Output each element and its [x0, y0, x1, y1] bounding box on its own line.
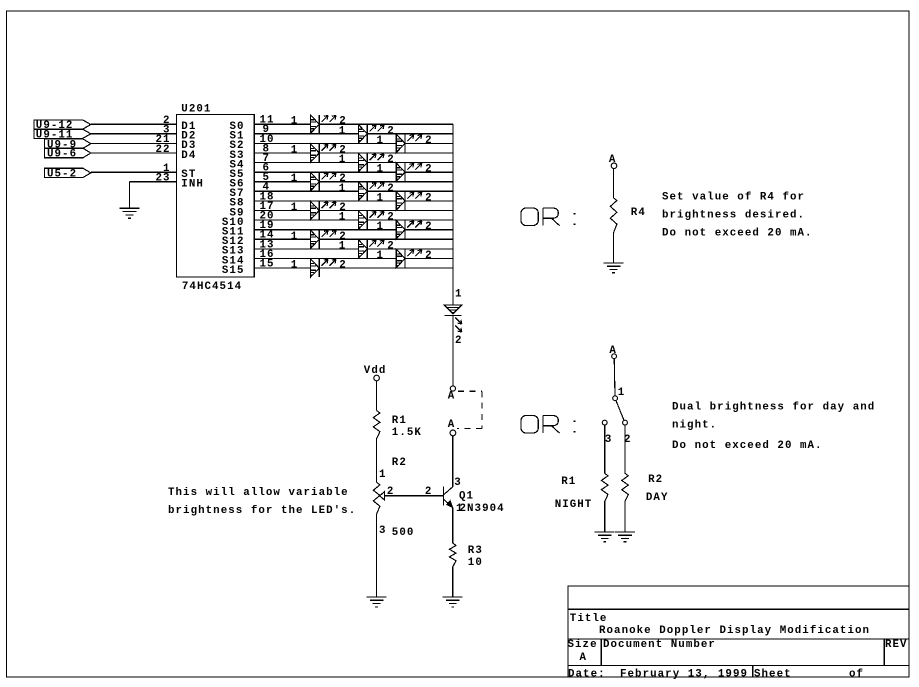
LED D17 series (pointing down): [444, 305, 462, 332]
svg-text:2: 2: [387, 240, 395, 252]
wire pin2 to R2 day: [624, 425, 626, 473]
wire S10 row: [254, 219, 453, 221]
svg-text:Q1: Q1: [459, 490, 474, 502]
wire pin3 to R1 night: [604, 425, 606, 473]
wire node A to collector: [452, 436, 454, 487]
svg-text:R4: R4: [631, 207, 646, 219]
svg-text:Sheet: Sheet: [754, 669, 792, 681]
wire S12 row: [254, 238, 453, 240]
wire wiper to Q1 base: [385, 495, 444, 497]
wire flag to pin 2: [91, 123, 177, 125]
svg-text:Dual brightness for day and: Dual brightness for day and: [672, 401, 875, 413]
LED D14 (row S13): [359, 240, 385, 258]
wire S15 row: [254, 267, 453, 269]
svg-text:74HC4514: 74HC4514: [182, 281, 242, 293]
svg-text:500: 500: [392, 527, 415, 539]
svg-text:2: 2: [425, 221, 433, 233]
svg-text:2: 2: [387, 212, 395, 224]
svg-text:1: 1: [339, 240, 347, 252]
wire S7 row: [254, 190, 453, 192]
connector flag U9-6: [44, 148, 90, 160]
svg-text:R2: R2: [392, 457, 407, 469]
svg-text:1: 1: [377, 221, 385, 233]
svg-text:1: 1: [455, 289, 463, 301]
svg-text:1: 1: [377, 164, 385, 176]
ground below R3: [443, 597, 463, 607]
wire R2 to ground: [624, 502, 626, 532]
svg-text:DAY: DAY: [646, 492, 669, 504]
IC U201 (74HC4514 4-to-16 line decoder) body: [177, 114, 255, 277]
wire S6 row: [254, 181, 453, 183]
ground at INH: [120, 208, 140, 218]
dashed connection between A nodes: [457, 391, 482, 428]
svg-text:Size: Size: [568, 639, 598, 651]
svg-text:1: 1: [339, 212, 347, 224]
ground below R2 day: [615, 532, 635, 542]
LED D6 (row S5): [396, 163, 422, 181]
wire S9 row: [254, 210, 453, 212]
svg-text:U201: U201: [181, 103, 211, 115]
svg-text:1: 1: [291, 173, 299, 185]
svg-text:1: 1: [291, 145, 299, 157]
svg-text:2: 2: [339, 260, 347, 272]
wire S8 row: [254, 200, 453, 202]
label OR 2: [521, 416, 575, 434]
LED D13 (row S12): [311, 230, 337, 248]
LED D12 (row S11): [396, 221, 422, 239]
LED D11 (row S10): [359, 211, 385, 229]
svg-text:2: 2: [425, 135, 433, 147]
svg-text:3: 3: [379, 525, 387, 537]
wire S2 row: [254, 142, 453, 144]
svg-text:3: 3: [454, 477, 462, 489]
svg-text:R1: R1: [392, 415, 407, 427]
resistor R1 NIGHT: [601, 473, 608, 501]
svg-text:D4: D4: [181, 150, 196, 162]
resistor R4: [610, 198, 617, 233]
svg-text:1: 1: [377, 135, 385, 147]
svg-text:brightness for the LED's.: brightness for the LED's.: [168, 505, 356, 517]
svg-text:Do not exceed 20 mA.: Do not exceed 20 mA.: [672, 440, 823, 452]
svg-text:2: 2: [425, 486, 433, 498]
svg-text:10: 10: [468, 557, 483, 569]
resistor R3 10: [449, 543, 456, 567]
wire S14 row: [254, 258, 453, 260]
svg-text:1: 1: [618, 387, 626, 399]
svg-text:A: A: [448, 419, 456, 431]
svg-text:Document Number: Document Number: [603, 639, 716, 651]
LED D15 (row S14): [396, 249, 422, 267]
wire LED to node A: [452, 315, 454, 386]
title block: [568, 586, 909, 677]
svg-text:1: 1: [379, 469, 387, 481]
svg-text:R3: R3: [468, 545, 483, 557]
svg-text:brightness desired.: brightness desired.: [662, 209, 805, 221]
LED D9 (row S8): [396, 192, 422, 210]
connector flag U5-2: [44, 168, 90, 180]
ground below R1 night: [595, 532, 615, 542]
potentiometer R2 500: [373, 482, 380, 514]
svg-text:2: 2: [387, 183, 395, 195]
svg-text:U5-2: U5-2: [47, 169, 77, 181]
svg-text:of: of: [849, 669, 864, 681]
svg-text:A: A: [580, 652, 588, 664]
potentiometer wiper arrow: [380, 492, 385, 501]
wire R3 to ground: [452, 567, 454, 597]
svg-text:2: 2: [425, 164, 433, 176]
LED D7 (row S6): [311, 173, 337, 191]
wire INH down: [129, 182, 131, 209]
node A circle (switch branch): [612, 354, 617, 359]
wire S13 row: [254, 248, 453, 250]
wire flag to pin 22: [91, 152, 177, 154]
svg-text:Title: Title: [570, 613, 608, 625]
svg-text:Do not exceed 20 mA.: Do not exceed 20 mA.: [662, 228, 813, 240]
transistor Q1 2N3904: [444, 486, 453, 507]
svg-text:This will allow variable: This will allow variable: [168, 487, 349, 499]
svg-text:23: 23: [155, 173, 170, 185]
svg-text:REV: REV: [885, 639, 908, 651]
node A (upper): [450, 386, 455, 391]
svg-text:3: 3: [605, 434, 613, 446]
svg-text:2: 2: [387, 125, 395, 137]
svg-text:1: 1: [291, 202, 299, 214]
wire R1 to ground: [604, 502, 606, 532]
switch pin 2: [623, 420, 628, 425]
wire R4 to ground: [613, 233, 615, 263]
label OR 1: [521, 208, 575, 226]
wire common bus vertical: [452, 124, 454, 305]
wire S5 row: [254, 171, 453, 173]
wire S4 row: [254, 162, 453, 164]
switch SW1 pin 1: [613, 396, 618, 401]
svg-text:INH: INH: [181, 179, 204, 191]
LED D5 (row S4): [359, 153, 385, 171]
connector flag U9-11: [34, 129, 91, 141]
svg-text:Roanoke Doppler Display Modifi: Roanoke Doppler Display Modification: [599, 625, 870, 637]
svg-text:1: 1: [339, 154, 347, 166]
wire S0 row: [254, 123, 453, 125]
svg-text:1: 1: [339, 183, 347, 195]
resistor R1 1.5K: [373, 411, 380, 439]
svg-text:2: 2: [425, 250, 433, 262]
connector flag U9-9: [44, 139, 90, 151]
wire Vdd to R1: [376, 381, 378, 411]
ground below R2: [367, 597, 387, 607]
wire A to switch: [613, 359, 616, 396]
connector flag U9-12: [34, 120, 91, 132]
wire flag to pin 1: [91, 171, 177, 173]
svg-text:1: 1: [377, 250, 385, 262]
switch pin 3: [602, 420, 607, 425]
wire R2 to ground: [376, 514, 378, 597]
LED D1 (row S0): [311, 115, 337, 133]
svg-text:R1: R1: [561, 476, 576, 488]
svg-text:2: 2: [387, 154, 395, 166]
wire INH horizontal: [130, 181, 177, 183]
svg-text:R2: R2: [648, 474, 663, 486]
svg-text:night.: night.: [672, 420, 717, 432]
svg-text:2N3904: 2N3904: [460, 503, 505, 515]
wire R1 to R2: [376, 439, 378, 483]
resistor R2 DAY: [622, 473, 629, 501]
wire flag to pin 3: [91, 133, 177, 135]
svg-text:NIGHT: NIGHT: [555, 499, 593, 511]
wire A to R4: [613, 169, 615, 198]
LED D2 (row S1): [359, 125, 385, 143]
svg-text:1: 1: [377, 192, 385, 204]
svg-text:22: 22: [155, 144, 170, 156]
svg-text:2: 2: [425, 192, 433, 204]
LED D10 (row S9): [311, 201, 337, 219]
svg-text:1: 1: [291, 260, 299, 272]
svg-text:1: 1: [339, 125, 347, 137]
node A circle (R4 branch): [611, 163, 617, 169]
svg-text:A: A: [448, 390, 456, 402]
svg-text:15: 15: [260, 258, 275, 270]
wire S3 row: [254, 152, 453, 154]
svg-text:Set value of R4 for: Set value of R4 for: [662, 191, 805, 203]
svg-text:1: 1: [291, 231, 299, 243]
svg-text:2: 2: [455, 335, 463, 347]
LED D4 (row S3): [311, 144, 337, 162]
switch lever: [616, 400, 624, 420]
svg-text:Date:: Date:: [568, 669, 606, 681]
wire emitter to R3: [452, 508, 454, 544]
svg-text:U9-6: U9-6: [47, 149, 77, 161]
svg-text:1.5K: 1.5K: [392, 427, 422, 439]
svg-text:1: 1: [291, 116, 299, 128]
svg-text:February 13, 1999: February 13, 1999: [620, 669, 748, 681]
LED D16 (row S15): [311, 259, 337, 277]
wire S11 row: [254, 229, 453, 231]
ground below R4: [604, 263, 624, 273]
wire flag to pin 21: [91, 142, 177, 144]
LED D8 (row S7): [359, 182, 385, 200]
svg-text:S15: S15: [222, 265, 245, 277]
LED D3 (row S2): [396, 134, 422, 152]
wire S1 row: [254, 133, 453, 135]
